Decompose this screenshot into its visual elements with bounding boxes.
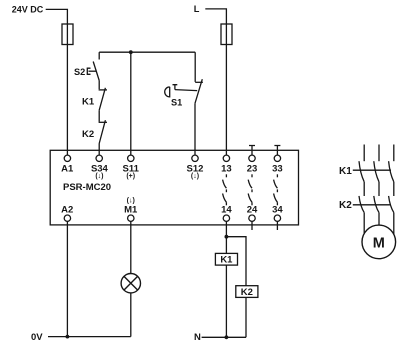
svg-text:M1: M1 (124, 205, 138, 216)
svg-text:S2: S2 (74, 67, 85, 77)
wire K1 linkage (353, 169, 391, 171)
svg-text:(↓): (↓) (191, 173, 199, 180)
wire L to fuse and down to 13 (205, 9, 226, 155)
wire 14 down to K1 coil (225, 221, 227, 253)
wire K2 linkage (353, 204, 391, 206)
wire phase 1 to motor (363, 213, 365, 234)
wire M1 down to lamp (130, 221, 132, 273)
wire phase 2 to motor (378, 213, 380, 226)
svg-text:(+): (+) (126, 173, 135, 180)
contact K1 pole 3 (389, 161, 394, 182)
wire K1 coil to N rail (225, 265, 227, 337)
coil K2 (236, 286, 258, 298)
motor M (362, 225, 396, 259)
wire phase 2 mid stub (378, 182, 380, 196)
svg-text:(↓): (↓) (95, 173, 103, 180)
contact K1 pole 1 (359, 161, 364, 182)
svg-text:N: N (194, 332, 201, 343)
svg-text:14: 14 (221, 205, 232, 216)
terminal 24 (247, 205, 258, 231)
wire top rail S2 to S1 (99, 51, 195, 53)
node junction S11 rail (129, 50, 133, 54)
coil K1 (215, 253, 237, 265)
switch S2 (74, 52, 99, 80)
contact K1 pole 2 (374, 161, 379, 182)
wire S11 drop (130, 52, 132, 155)
contact K2 pole 3 (389, 196, 394, 213)
svg-text:23: 23 (247, 163, 258, 174)
wire K1 to K2 (98, 110, 100, 122)
safety contact 33-34 (274, 174, 278, 205)
contact K2 (NO) (82, 120, 107, 143)
terminal S11 (123, 155, 140, 180)
safety contact 13-14 (223, 174, 227, 205)
wire K2 coil to N rail (245, 297, 247, 337)
terminal A2 (61, 205, 73, 222)
wire phase 3 top stub (393, 145, 395, 162)
wire phase 3 to motor (393, 213, 395, 235)
svg-text:L: L (194, 4, 200, 14)
svg-text:A1: A1 (61, 163, 74, 174)
terminal 14 (221, 205, 232, 222)
terminal 23 (247, 146, 258, 175)
terminal S34 (91, 155, 109, 180)
svg-text:K1: K1 (339, 166, 352, 177)
terminal A1 (61, 155, 74, 174)
wire S1 to S12 (194, 103, 196, 155)
contact K2 pole 1 (359, 196, 364, 213)
node junction K1/N (225, 335, 229, 339)
terminal 33 (272, 146, 283, 175)
svg-text:PSR-MC20: PSR-MC20 (63, 182, 111, 193)
svg-text:K2: K2 (339, 200, 352, 211)
safety contact 23-24 (248, 174, 252, 205)
node junction A2/0V (66, 335, 70, 339)
terminal 13 (221, 155, 232, 174)
svg-text:24V DC: 24V DC (12, 4, 44, 14)
wire K2 to S34 (98, 144, 100, 156)
svg-text:A2: A2 (61, 205, 73, 216)
terminal M1 (124, 198, 138, 222)
contact K2 pole 2 (374, 196, 379, 213)
svg-text:K1: K1 (220, 255, 233, 266)
wire branch to K2 coil (226, 237, 246, 286)
terminal 34 (272, 205, 283, 231)
svg-text:K1: K1 (82, 96, 95, 107)
node junction 14 branch (225, 235, 229, 239)
wire A2 down to 0V rail (66, 221, 68, 336)
svg-text:0V: 0V (31, 332, 43, 343)
terminal S12 (187, 155, 204, 180)
svg-text:13: 13 (221, 163, 232, 174)
wire phase 1 mid stub (363, 182, 365, 196)
wire S2 to K1 (98, 81, 100, 90)
relay box PSR-MC20 (50, 150, 298, 225)
svg-text:M: M (373, 235, 385, 251)
fuse F2 (221, 24, 232, 45)
wire 24VDC to fuse and down to A1 (46, 9, 68, 155)
emergency stop S1 (165, 52, 203, 107)
wire phase 3 mid stub (393, 182, 395, 196)
wire N rail (202, 336, 246, 338)
contact K1 (NO) (82, 88, 107, 110)
lamp P1 (indicator) (121, 274, 140, 293)
svg-text:34: 34 (272, 205, 283, 216)
svg-text:K2: K2 (241, 287, 253, 298)
wire phase 2 top stub (378, 145, 380, 162)
fuse F1 (62, 24, 73, 45)
svg-text:24: 24 (247, 205, 258, 216)
wire phase 1 top stub (363, 145, 365, 162)
svg-text:33: 33 (272, 163, 283, 174)
wire lamp to 0V rail (130, 293, 132, 337)
wire 0V rail (48, 336, 131, 338)
svg-text:S1: S1 (171, 98, 182, 108)
svg-text:K2: K2 (82, 129, 94, 140)
